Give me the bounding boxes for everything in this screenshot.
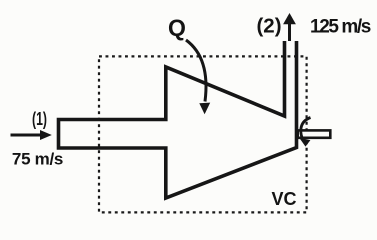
shaft rotation arrow — [299, 118, 310, 147]
heat transfer Q curved arrow — [186, 40, 210, 114]
svg-text:VC: VC — [271, 189, 296, 209]
svg-text:Q: Q — [168, 15, 186, 41]
control volume dotted boundary VC — [99, 56, 307, 212]
svg-text:(2): (2) — [256, 14, 281, 37]
outlet arrow (2) — [283, 13, 296, 41]
svg-text:75 m/s: 75 m/s — [12, 149, 63, 168]
turbine body with inlet duct and outlet pipe (outline) — [59, 41, 297, 198]
svg-text:(1): (1) — [32, 109, 47, 129]
shaft (work output probe) — [298, 130, 331, 137]
svg-text:125 m/s: 125 m/s — [310, 17, 371, 38]
inlet arrow (1) — [11, 130, 52, 140]
